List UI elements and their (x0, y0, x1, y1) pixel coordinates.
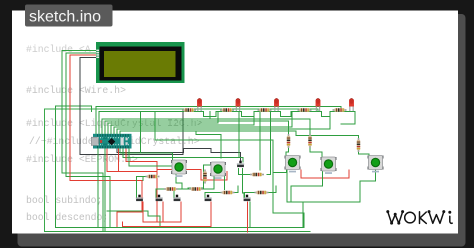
svg-text:#include <A: #include <A (26, 44, 91, 55)
svg-text:bool descendo;: bool descendo; (26, 212, 108, 223)
svg-text:#include <Wire.h>: #include <Wire.h> (26, 85, 126, 96)
svg-text:#include <EEPROM.h>: #include <EEPROM.h> (26, 154, 138, 165)
svg-text:bool subindo;: bool subindo; (26, 195, 102, 206)
svg-text:sketch.ino: sketch.ino (29, 9, 101, 26)
